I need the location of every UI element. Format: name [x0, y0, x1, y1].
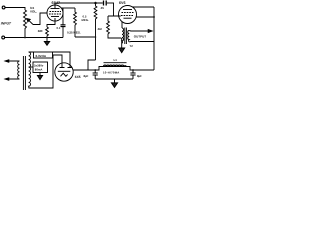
input terminal (ground) — [2, 36, 5, 39]
transformer T1 core — [23, 56, 25, 90]
node C4 junction — [132, 69, 134, 71]
transformer T1 primary coil — [18, 61, 20, 79]
6V6 plate bar — [123, 9, 132, 11]
node cathode resistor at bus — [46, 37, 48, 39]
wire HV top to 6X5 plate — [29, 52, 70, 68]
resistor R5 grid — [107, 16, 122, 38]
wire B+ drop jog — [88, 60, 96, 70]
pot wiper arrow — [27, 19, 33, 25]
tube V2 6V6 — [119, 6, 137, 24]
6SJ7 grid dashes — [49, 12, 62, 15]
transformer T2 secondary coil — [128, 31, 130, 42]
svg-text:6X5: 6X5 — [75, 75, 81, 79]
wire center tap — [29, 66, 33, 68]
wire 6SJ7 plate rail — [55, 3, 103, 9]
capacitor C1 screen bypass — [61, 8, 66, 38]
wire 6V6 cathode — [121, 22, 123, 28]
wire secondary return — [129, 41, 154, 43]
choke L1 core line — [104, 62, 127, 64]
6X5 heater — [61, 73, 68, 76]
svg-text:T2: T2 — [130, 44, 134, 48]
wire wiper to 6SJ7 grid — [33, 13, 47, 25]
tube V3 6X5 — [55, 63, 73, 81]
svg-text:.5M: .5M — [97, 27, 102, 31]
svg-text:.05: .05 — [100, 6, 104, 10]
capacitor C4 filter — [130, 70, 135, 79]
svg-text:680: 680 — [38, 29, 43, 33]
transformer T2 core — [125, 28, 127, 45]
ground symbol G2 — [119, 38, 125, 53]
node screen feed junction — [95, 36, 97, 38]
svg-text:VOL.: VOL. — [30, 9, 37, 13]
node screen junction — [153, 16, 155, 18]
svg-text:0.1: 0.1 — [57, 26, 61, 30]
svg-text:L1: L1 — [114, 58, 118, 62]
wire AC line lead lower — [5, 78, 20, 80]
wire filter ground bus — [95, 78, 133, 80]
resistor R2 screen — [74, 8, 77, 37]
svg-text:80mA: 80mA — [35, 68, 43, 72]
6V6 cathode bar — [124, 17, 132, 19]
svg-text:6.3V.6A: 6.3V.6A — [36, 54, 47, 58]
svg-text:OUTPUT: OUTPUT — [134, 34, 147, 38]
6V6 grid dashes — [121, 13, 134, 16]
6SJ7 plate bar — [51, 8, 60, 10]
transformer T2 primary coil — [122, 28, 124, 43]
resistor R3 cathode 680 — [47, 18, 55, 27]
svg-text:INPUT: INPUT — [1, 22, 12, 26]
volume potentiometer R1 — [24, 10, 27, 38]
wire B+ from 6X5 cathode — [73, 67, 154, 71]
node plate junction — [94, 2, 97, 5]
wire AC line lead upper — [5, 60, 20, 62]
node pot bottom — [24, 37, 26, 39]
svg-text:8µF: 8µF — [137, 74, 142, 78]
node C3 junction — [94, 69, 96, 71]
wire 6SJ7 screen lead — [61, 7, 75, 9]
tube V1 6SJ7 — [47, 5, 63, 21]
ground symbol G4 — [111, 79, 117, 87]
label 6.3V winding box — [34, 52, 53, 58]
input terminal (hot) — [2, 6, 5, 9]
wire HV bottom to 6X5 plate — [29, 55, 62, 88]
ground bus — [5, 37, 63, 39]
svg-text:10-H/70MA: 10-H/70MA — [103, 71, 120, 75]
wire input to volume pot — [5, 8, 25, 11]
capacitor C3 filter — [93, 70, 98, 79]
resistor R4 plate load — [94, 3, 97, 60]
wire 6V6 plate to B+ rail — [132, 6, 154, 8]
6X5 cathode bar — [58, 70, 71, 72]
choke L1 — [104, 65, 127, 66]
wire B+ right edge — [153, 7, 155, 70]
ground symbol G1 — [44, 38, 49, 46]
svg-text:0.25 MEG.: 0.25 MEG. — [67, 31, 81, 35]
wire 6V6 screen — [136, 16, 154, 18]
svg-text:8µF: 8µF — [84, 74, 89, 78]
wire secondary OUTPUT arrow — [129, 30, 152, 33]
svg-text:6V6: 6V6 — [119, 1, 126, 5]
capacitor C2 coupling — [104, 1, 107, 6]
wire screen feed — [75, 36, 96, 38]
svg-text:MEG.: MEG. — [82, 18, 89, 22]
wire C2 to 6V6 grid — [108, 3, 121, 16]
ground symbol G3 center tap — [37, 73, 42, 80]
6SJ7 cathode bar — [51, 16, 59, 18]
transformer T1 secondary coil — [29, 52, 31, 88]
6X5 plate bars — [60, 67, 72, 69]
label HV winding box — [33, 62, 48, 73]
